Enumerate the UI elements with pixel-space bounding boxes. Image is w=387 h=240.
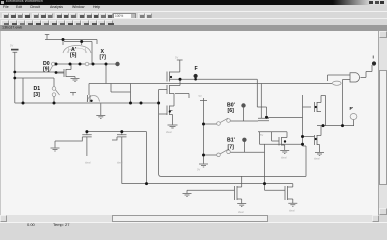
svg-text:F: F (195, 66, 198, 72)
svg-text:5V: 5V (199, 94, 202, 98)
svg-text:ideal: ideal (85, 161, 91, 165)
svg-text:ideal: ideal (289, 209, 295, 213)
svg-text:[7]: [7] (228, 145, 235, 151)
svg-text:ideal: ideal (314, 157, 320, 161)
svg-text:[7]: [7] (100, 55, 107, 61)
svg-text:[6]: [6] (228, 108, 235, 114)
svg-text:5V: 5V (175, 56, 178, 60)
svg-text:[5]: [5] (70, 53, 77, 59)
svg-text:ideal: ideal (281, 156, 287, 160)
svg-text:F': F' (350, 106, 354, 111)
svg-text:B1': B1' (227, 137, 235, 143)
svg-text:ideal: ideal (238, 210, 244, 214)
svg-text:5V: 5V (260, 133, 263, 137)
svg-text:ideal: ideal (117, 161, 123, 165)
svg-text:0V: 0V (197, 168, 200, 172)
svg-text:ideal: ideal (166, 130, 172, 134)
svg-text:[3]: [3] (34, 92, 41, 98)
svg-text:5V: 5V (10, 44, 13, 48)
svg-text:[9]: [9] (43, 67, 50, 73)
